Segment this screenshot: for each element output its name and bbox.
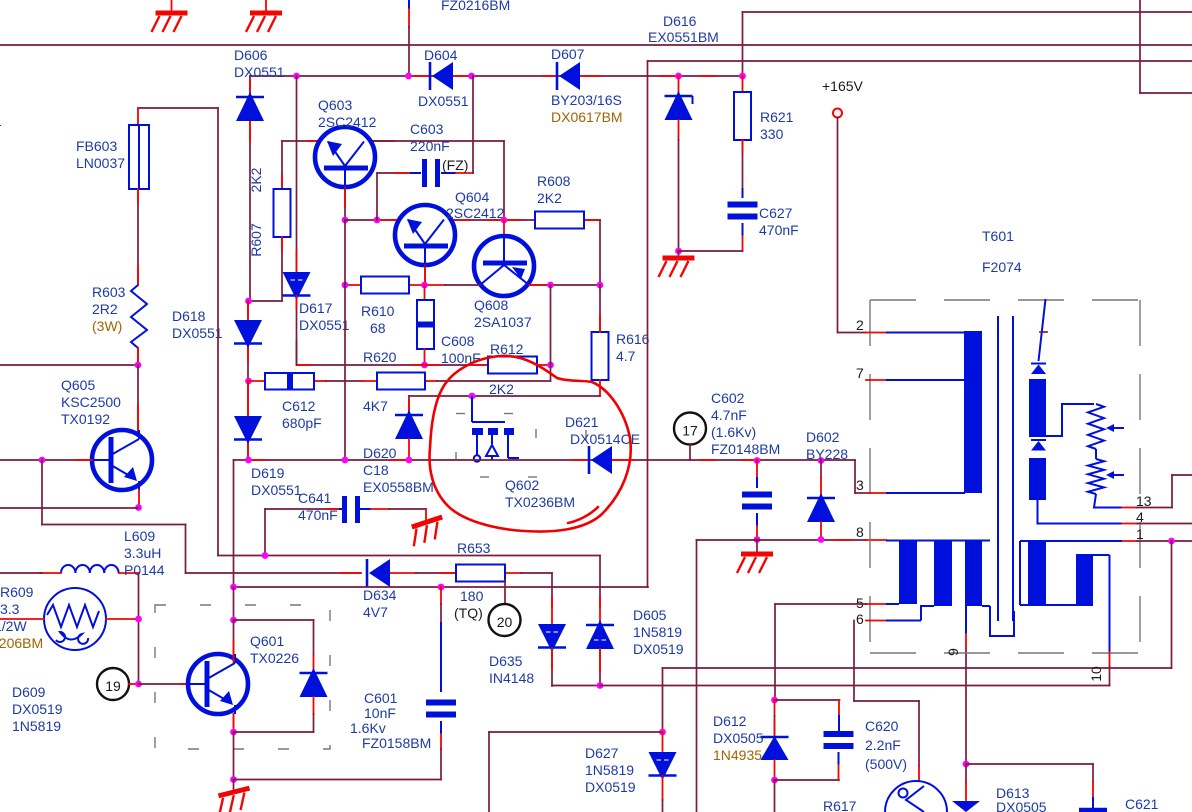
svg-text:4K7: 4K7 — [363, 398, 388, 414]
resistor R621 leads — [742, 76, 744, 92]
pin 6 lead — [866, 620, 886, 622]
svg-text:2SC2412: 2SC2412 — [318, 114, 377, 130]
svg-text:Q603: Q603 — [318, 97, 352, 113]
ground under C602 — [756, 540, 758, 553]
svg-text:220nF: 220nF — [410, 138, 450, 154]
svg-text:C603: C603 — [410, 121, 444, 137]
node dot x377 y220 — [374, 217, 381, 224]
node dot x345 y285 — [342, 282, 349, 289]
secondary diode lower — [1031, 439, 1046, 441]
diode D606 — [236, 96, 264, 99]
posistor TH bottom right — [918, 766, 920, 781]
svg-text:1N4935: 1N4935 — [713, 747, 762, 763]
ground C641 tilted — [425, 509, 427, 519]
capacitor C641 plates — [342, 496, 347, 523]
node dot x600 y286 — [597, 282, 604, 289]
svg-text:D620: D620 — [363, 445, 397, 461]
wire pin6 vertical x854 and jog to posistor — [853, 621, 855, 702]
svg-text:EX0551BM: EX0551BM — [648, 29, 719, 45]
transistor Q604 — [395, 205, 455, 265]
capacitor C620 — [838, 700, 840, 715]
svg-text:FZ0148BM: FZ0148BM — [711, 441, 780, 457]
resistor R603 zigzag — [131, 285, 147, 348]
svg-text:KSC2500: KSC2500 — [61, 394, 121, 410]
winding bar B5 — [1076, 555, 1093, 605]
svg-text:DX0505: DX0505 — [996, 799, 1047, 812]
wire x1171 y541-668 — [1171, 541, 1173, 668]
winding bottom connector — [982, 605, 990, 607]
core line left — [997, 316, 999, 621]
lead red FB603 top — [137, 108, 139, 125]
ground under D616 — [678, 251, 680, 256]
wire R608 right corner x600 down — [599, 220, 601, 285]
wire x662 bus1 corner down to D627 — [662, 668, 664, 732]
wire top y12 — [743, 11, 1192, 13]
node 20 circle — [489, 604, 521, 636]
transformer dashed border — [870, 300, 1140, 653]
svg-text:D634: D634 — [363, 587, 397, 603]
node dot x757 y540 — [754, 536, 761, 543]
svg-text:330: 330 — [760, 126, 784, 142]
wire x265 C641 to y555 — [264, 509, 266, 556]
pot arrow upper — [1108, 427, 1124, 429]
wire y700 D612/C620 node — [775, 699, 840, 701]
wire y460 jog to pin3 — [854, 460, 856, 493]
wire y381 C612/R620 row — [248, 380, 265, 382]
wire x297 D617-bottom to y365 corner — [296, 340, 298, 365]
svg-text:(FZ): (FZ) — [442, 157, 468, 173]
svg-text:(500V): (500V) — [865, 756, 907, 772]
node dot x233 y732 — [230, 729, 237, 736]
node dot x600 y685 — [597, 682, 604, 689]
transistor Q605 — [92, 430, 152, 490]
wire Q608 top lead — [503, 220, 505, 236]
svg-text:8: 8 — [856, 524, 864, 540]
mosfet Q602 body diode arrow — [491, 435, 493, 444]
diode D635 — [538, 624, 566, 652]
svg-text:FB603: FB603 — [76, 138, 117, 154]
svg-text:EX0558BM: EX0558BM — [363, 479, 434, 495]
node dot x138 y684 — [135, 681, 142, 688]
diode D602 — [820, 460, 822, 477]
svg-text:C602: C602 — [711, 390, 745, 406]
node dot x662 y732 — [659, 729, 666, 736]
diode D616 zener — [678, 76, 680, 94]
node 20 stem — [504, 580, 506, 604]
wire x696 y540 down — [696, 540, 698, 812]
svg-text:2K2: 2K2 — [248, 167, 264, 192]
svg-text:2K2: 2K2 — [537, 190, 562, 206]
svg-text:Q608: Q608 — [474, 297, 508, 313]
resistor R608 — [535, 212, 584, 229]
capacitor C621 — [1092, 797, 1094, 812]
wire x233 y620 to Q601 collector — [233, 620, 235, 655]
svg-text:68: 68 — [370, 320, 386, 336]
svg-text:2: 2 — [856, 317, 864, 333]
svg-text:D635: D635 — [489, 653, 523, 669]
lower-left winding bar B2 — [934, 541, 952, 607]
wire R616 bottom lead — [599, 380, 601, 396]
wire FB603 top corner to x218 — [138, 107, 218, 109]
svg-text:P0144: P0144 — [124, 562, 165, 578]
svg-text:D604: D604 — [424, 47, 458, 63]
capacitor C601 column — [440, 587, 442, 604]
node dot bus/D604 right — [468, 73, 475, 80]
wire y508 from left edge to Q605 emitter — [0, 507, 138, 509]
svg-text:DX0551: DX0551 — [234, 64, 285, 80]
svg-text:1/2W: 1/2W — [0, 618, 27, 634]
pin1 winding bar B4 — [1028, 541, 1046, 605]
node dot x678 y251 — [675, 248, 682, 255]
posistor R609 curl — [56, 632, 88, 644]
svg-text:Q605: Q605 — [61, 377, 95, 393]
svg-text:180: 180 — [460, 588, 484, 604]
wire y555 bus from FB column — [218, 555, 600, 557]
wire y573 D634 row — [186, 572, 362, 574]
wire y620 to damper diode — [234, 619, 314, 621]
wire x233 y587-620 — [233, 587, 235, 620]
transistor Q601 — [188, 654, 248, 714]
wire C603 left lead — [377, 172, 410, 174]
svg-text:3: 3 — [856, 477, 864, 493]
svg-text:2SA1037: 2SA1037 — [474, 314, 532, 330]
wire y284 R610 row — [345, 284, 361, 286]
posistor R609 zigzag — [47, 605, 99, 627]
secondary winding bar upper — [1029, 379, 1046, 437]
diode D617 — [283, 272, 311, 300]
wire +165V down to pin2 — [837, 118, 839, 333]
wire damper diode column — [313, 620, 315, 655]
wire damper diode bottom — [313, 697, 315, 714]
node 19 circle — [97, 668, 129, 700]
svg-text:D627: D627 — [585, 745, 619, 761]
svg-text:R621: R621 — [760, 109, 794, 125]
winding top line to pin10 — [1076, 554, 1110, 556]
wire base row y460 from left edge — [0, 459, 92, 461]
svg-text:D621: D621 — [565, 414, 599, 430]
node dot bus/x678 D616 — [675, 73, 682, 80]
node 17 stem — [689, 445, 691, 461]
wire C608 bottom lead — [424, 349, 426, 365]
capacitor C602 — [756, 460, 758, 477]
svg-text:C18: C18 — [363, 462, 389, 478]
wire C621 column — [1092, 764, 1094, 781]
svg-text:L609: L609 — [124, 528, 155, 544]
secondary winding bar lower — [1029, 458, 1046, 500]
svg-text:C620: C620 — [865, 718, 899, 734]
node dot x821 y540 — [818, 536, 825, 543]
node dot x233 y779 — [230, 776, 237, 783]
wire x775 y780 down off-page — [774, 780, 776, 812]
wire x489 y732 corner down — [488, 732, 490, 812]
wire x248 y381-460 with D619 — [247, 381, 249, 460]
wire x473 C603 to bus — [472, 76, 474, 173]
annotation red ellipse around Q602 — [430, 356, 631, 532]
svg-text:3.3: 3.3 — [0, 601, 20, 617]
node dot x233 y460 corner — [233, 460, 235, 587]
svg-text:100nF: 100nF — [441, 350, 481, 366]
mosfet Q602 source lead and bulk — [476, 435, 478, 455]
annotation tail stroke — [568, 507, 598, 523]
node dot bus/x742 R621 — [739, 73, 746, 80]
wire R621 to C627 — [742, 140, 744, 188]
svg-text:7: 7 — [856, 365, 864, 381]
resistor R620 — [377, 373, 425, 390]
node dot x966 y764 — [963, 761, 970, 768]
svg-text:19: 19 — [105, 678, 121, 694]
resistor R616 — [592, 332, 609, 380]
svg-text:IN4148: IN4148 — [489, 670, 534, 686]
wire y764 to C621 — [966, 763, 1093, 765]
pot connector — [1095, 449, 1097, 459]
node dot bus/x409 — [405, 73, 412, 80]
wire y365 from left edge to R603/Q605 node — [0, 364, 138, 366]
mosfet Q602 channel bars — [472, 428, 483, 435]
svg-text:2.2nF: 2.2nF — [865, 737, 901, 753]
diode D612 — [774, 700, 776, 716]
node dot x409 y460 — [406, 457, 413, 464]
svg-text:TX0226: TX0226 — [250, 650, 299, 666]
svg-text:Q602: Q602 — [505, 477, 539, 493]
wire top y61 — [648, 60, 1192, 62]
capacitor C603 — [422, 159, 427, 187]
transistor Q608 — [474, 236, 534, 296]
svg-text:C621: C621 — [1125, 796, 1159, 812]
svg-text:1: 1 — [1136, 526, 1144, 542]
svg-text:D616: D616 — [663, 13, 697, 29]
svg-text:(TQ): (TQ) — [454, 605, 483, 621]
wire y141 Q603 row — [282, 140, 318, 142]
mosfet Q602 gate lead — [471, 396, 473, 422]
pin 10 lead — [1109, 555, 1111, 652]
pot resistor lower zigzag — [1088, 459, 1104, 494]
diode D621 — [588, 446, 591, 474]
svg-text:C612: C612 — [282, 398, 316, 414]
wire vertical x250 D606 column — [249, 76, 251, 301]
wire y396 gate row — [409, 395, 600, 397]
resistor R653 — [456, 565, 505, 582]
wire pot to pin13 — [1094, 494, 1122, 508]
core line right — [1012, 316, 1014, 621]
wire Q604 base down to y284 — [424, 265, 426, 285]
node dot x424 y285 — [421, 282, 428, 289]
dashed box Q601 — [155, 605, 330, 749]
wire node19 stub to junction — [129, 683, 139, 685]
pin 2 lead — [866, 332, 886, 334]
svg-text:5: 5 — [856, 595, 864, 611]
svg-text:(3W): (3W) — [92, 318, 122, 334]
node dot x424 y365 — [421, 362, 428, 369]
wire R609 right lead — [106, 618, 139, 620]
node dot x248 y460 — [245, 457, 252, 464]
wire R616 top lead — [599, 285, 601, 332]
wire y540 C602 bottom row — [697, 539, 867, 541]
svg-text:4.7: 4.7 — [616, 348, 636, 364]
svg-text:Q601: Q601 — [250, 633, 284, 649]
svg-text:Q604: Q604 — [455, 189, 489, 205]
svg-text:R603: R603 — [92, 284, 126, 300]
diode D618 — [234, 320, 262, 348]
transistor Q603 — [315, 127, 375, 187]
wire y93 top right — [1140, 92, 1192, 94]
wire x550 y286-381 — [550, 285, 552, 381]
node dot y460 x42 — [39, 457, 46, 464]
wire bus1 y668 — [663, 667, 1172, 669]
node dot x441 y587 — [438, 584, 445, 591]
mosfet Q602 drain leg — [507, 435, 509, 458]
svg-text:13: 13 — [1136, 493, 1152, 509]
terminal +165V circle — [833, 109, 842, 118]
node dot x233 y587 — [230, 584, 237, 591]
svg-text:R607: R607 — [248, 223, 264, 257]
wire C627 bottom corner to x678 — [742, 223, 744, 236]
svg-text:BY228: BY228 — [806, 446, 848, 462]
node dot x138 y365 — [135, 362, 142, 369]
svg-text:D607: D607 — [551, 46, 585, 62]
svg-text:DX0505: DX0505 — [713, 730, 764, 746]
wire vertical x742 from y12 to bus — [742, 12, 744, 76]
ground G1 top-left — [171, 0, 173, 11]
svg-text:D602: D602 — [806, 429, 840, 445]
svg-text:D606: D606 — [234, 47, 268, 63]
wire Q605 emitter to dot y507 — [138, 490, 140, 508]
diode D605 — [586, 624, 614, 627]
wire L609 leads — [40, 572, 61, 574]
svg-text:DX0617BM: DX0617BM — [551, 109, 623, 125]
wire vertical x1140 top right — [1139, 0, 1141, 93]
wire Q601 base from node19 — [139, 683, 193, 685]
svg-text:FZ0216BM: FZ0216BM — [441, 0, 510, 13]
ferrite bead FB603 — [129, 125, 149, 189]
wire x296 bus to D617 — [296, 76, 298, 272]
svg-text:C641: C641 — [298, 490, 332, 506]
wire y220 Q604 row — [345, 219, 397, 221]
wire jog x42 y460-524 to x185 — [41, 460, 43, 525]
svg-text:D609: D609 — [12, 684, 46, 700]
svg-text:C601: C601 — [364, 690, 398, 706]
svg-text:1: 1 — [0, 113, 2, 129]
node dot x250 y301 — [245, 298, 252, 305]
svg-text:D617: D617 — [299, 300, 333, 316]
svg-text:17: 17 — [682, 423, 698, 439]
wire main row y460 — [234, 459, 856, 461]
wire y732 Q601 row — [234, 731, 314, 733]
resistor R621 — [734, 92, 751, 140]
wire x282 R607 top — [281, 141, 283, 189]
red leads y460 row — [250, 459, 265, 461]
svg-text:R609: R609 — [0, 584, 34, 600]
svg-text:1.6Kv: 1.6Kv — [350, 720, 386, 736]
secondary diode upper — [1031, 363, 1046, 365]
svg-text:C608: C608 — [441, 333, 475, 349]
node dot x265 y555 — [262, 552, 269, 559]
svg-text:2K2: 2K2 — [489, 381, 514, 397]
svg-text:3.3uH: 3.3uH — [124, 545, 161, 561]
pin 9 lead from winding — [965, 606, 967, 634]
svg-text:DX0519: DX0519 — [633, 641, 684, 657]
wire C603 right lead — [441, 172, 456, 174]
wire main vertical x648 — [647, 61, 649, 587]
wire y301 R607-bottom to D606 column — [248, 300, 282, 302]
wire C641 row y509 — [265, 508, 339, 510]
secondary tick — [1040, 331, 1047, 333]
node dot x139 y507 — [135, 504, 142, 511]
wire R609 left lead from edge — [0, 618, 44, 620]
dashed box Q602 — [456, 414, 586, 478]
node dot x345 y460 — [342, 457, 349, 464]
pin 4 lead — [1122, 523, 1137, 525]
wire x377 C603 left column — [376, 173, 378, 220]
wire pin5 vertical x775 — [774, 604, 776, 700]
svg-text:TX0192: TX0192 — [61, 411, 110, 427]
wire vertical x409 top (lead of off-page part) — [408, 0, 410, 9]
diode D604 — [429, 62, 432, 90]
diode D613 — [965, 764, 967, 782]
svg-text:2SC2412: 2SC2412 — [446, 205, 505, 221]
winding bottom line right — [1020, 604, 1093, 606]
wire y286 Q608 right to x600 — [529, 284, 600, 286]
svg-text:2R2: 2R2 — [92, 301, 118, 317]
svg-text:20: 20 — [497, 614, 513, 630]
svg-text:1N5819: 1N5819 — [633, 624, 682, 640]
svg-text:DX0551: DX0551 — [251, 482, 302, 498]
resistor R612 — [488, 357, 537, 374]
wire red leads on bus y76 — [415, 75, 429, 77]
pin 4 wire from winding — [1038, 500, 1123, 524]
wire pin9 vertical x966 — [965, 648, 967, 764]
capacitor C608 box — [424, 285, 426, 300]
svg-text:DX0519: DX0519 — [12, 701, 63, 717]
wire D620 bottom lead — [408, 439, 410, 460]
wire y779 bottom row — [234, 779, 442, 781]
lower-left winding bar B1 — [899, 541, 917, 605]
diode D627 — [662, 732, 664, 751]
secondary slant wire — [1039, 299, 1046, 361]
wire vertical x218 down to y555 — [217, 108, 219, 556]
svg-text:0206BM: 0206BM — [0, 635, 43, 651]
pot resistor upper zigzag — [1088, 404, 1104, 449]
ground bottom left tilted — [233, 780, 235, 791]
pin 8 lead blue — [886, 540, 990, 542]
svg-text:DX0551: DX0551 — [299, 317, 350, 333]
pin 5 lead — [866, 603, 886, 605]
node dot x757 y460 — [754, 457, 761, 464]
node 17 circle — [674, 413, 706, 445]
resistor R607 — [274, 189, 291, 237]
diode D619 — [234, 416, 262, 444]
pin 1 lead — [1122, 540, 1137, 542]
damper diode of Q601 — [300, 672, 328, 675]
wire Q601 emitter to y732 — [233, 714, 235, 732]
svg-text:LN0037: LN0037 — [76, 155, 125, 171]
pin 13 lead — [1122, 507, 1137, 509]
svg-text:DX0519: DX0519 — [585, 779, 636, 795]
svg-text:10nF: 10nF — [364, 705, 396, 721]
pin 3 lead — [869, 492, 886, 494]
svg-text:+165V: +165V — [822, 78, 864, 94]
lower-left winding bar B3 — [965, 541, 982, 607]
node dot x504 y220 — [501, 217, 508, 224]
wire y555 corner x600 down to D605 — [599, 556, 601, 608]
wire x282 R607 bottom to y301 — [281, 237, 283, 301]
node dot x248 y381 — [245, 378, 252, 385]
wire Q605 collector x138 y365-430 — [137, 365, 139, 436]
svg-text:F2074: F2074 — [982, 259, 1022, 275]
node dot x775 y780 — [771, 777, 778, 784]
svg-text:DX0551: DX0551 — [172, 325, 223, 341]
node dot x233 y620 — [230, 617, 237, 624]
svg-text:1N5819: 1N5819 — [585, 762, 634, 778]
